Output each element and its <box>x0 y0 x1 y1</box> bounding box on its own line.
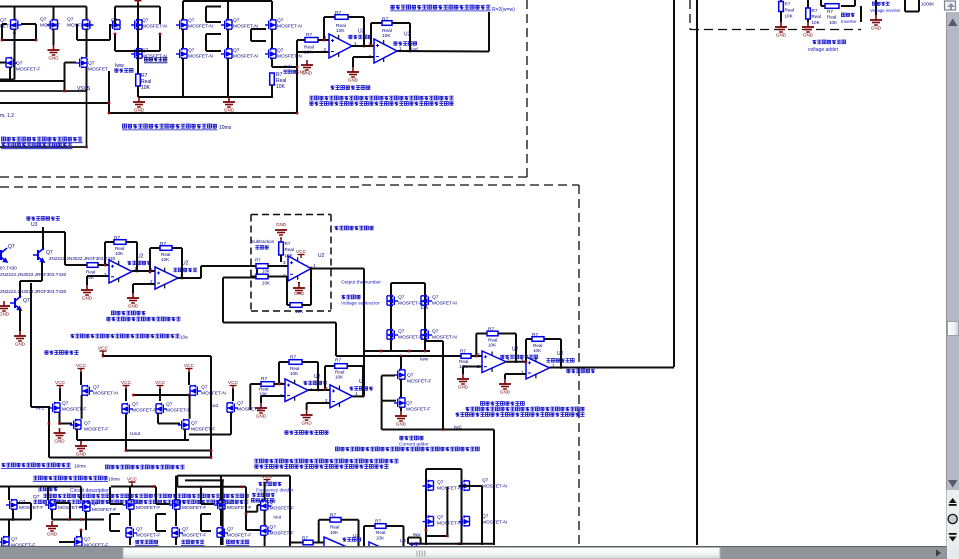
svg-text:Q7: Q7 <box>182 499 189 505</box>
svg-text:Q7: Q7 <box>136 527 143 533</box>
svg-text:MOSFET-F: MOSFET-F <box>84 427 108 433</box>
svg-text:Q7: Q7 <box>84 421 91 427</box>
svg-text:Q7: Q7 <box>182 527 189 533</box>
svg-text:Real: Real <box>86 270 95 275</box>
svg-text:R7: R7 <box>114 235 120 241</box>
svg-text:Real: Real <box>285 247 294 252</box>
svg-text:Iww: Iww <box>420 357 429 362</box>
svg-text:3: 3 <box>280 381 283 386</box>
svg-text:Q7: Q7 <box>16 61 23 67</box>
svg-text:10K: 10K <box>812 20 821 25</box>
svg-text:R7: R7 <box>460 349 466 354</box>
svg-text:MOSFET-N: MOSFET-N <box>142 24 167 30</box>
svg-text:MOSFET-N: MOSFET-N <box>233 54 258 60</box>
svg-text:Current adder: Current adder <box>399 442 429 448</box>
svg-text:R7: R7 <box>532 332 538 338</box>
svg-text:Q7: Q7 <box>62 401 69 407</box>
svg-text:Q7: Q7 <box>437 480 444 486</box>
svg-text:3: 3 <box>283 260 286 265</box>
svg-text:10K: 10K <box>336 28 345 34</box>
svg-text:Q7: Q7 <box>0 18 7 24</box>
svg-text:Iout: Iout <box>273 515 281 520</box>
svg-text:R7: R7 <box>330 513 336 519</box>
svg-text:Q7: Q7 <box>33 494 40 500</box>
svg-text:R7: R7 <box>827 9 833 14</box>
svg-text:Q7: Q7 <box>166 402 173 408</box>
svg-text:Q7: Q7 <box>93 385 100 391</box>
svg-text:10ms: 10ms <box>219 125 232 131</box>
svg-text:Q7: Q7 <box>67 17 74 23</box>
svg-text:Q7: Q7 <box>8 244 15 250</box>
svg-text:Iww: Iww <box>413 532 422 537</box>
svg-text:10K: 10K <box>488 343 497 348</box>
svg-text:MOSFET-N: MOSFET-N <box>201 391 226 397</box>
svg-text:Q7: Q7 <box>270 525 277 531</box>
svg-text:MOSFET-N: MOSFET-N <box>432 335 457 341</box>
svg-text:Q7: Q7 <box>233 18 240 24</box>
svg-text:Q7: Q7 <box>277 18 284 24</box>
svg-text:R7: R7 <box>302 536 308 541</box>
svg-text:GND: GND <box>803 32 814 37</box>
svg-text:R7: R7 <box>382 17 388 23</box>
svg-text:R7: R7 <box>375 519 381 525</box>
svg-text:Q7: Q7 <box>233 48 240 54</box>
svg-text:R7: R7 <box>255 258 261 263</box>
svg-text:Q7: Q7 <box>227 499 234 505</box>
svg-text:MOSFET-F: MOSFET-F <box>182 533 206 539</box>
svg-text:GND: GND <box>256 413 267 418</box>
svg-text:GND: GND <box>396 421 407 426</box>
svg-text:Q7: Q7 <box>398 329 405 335</box>
svg-text:MOSFET-N: MOSFET-N <box>398 335 423 341</box>
svg-text:Q7: Q7 <box>132 402 139 408</box>
svg-text:MOSFET-F: MOSFET-F <box>191 427 215 433</box>
svg-text:GND: GND <box>294 291 304 296</box>
svg-text:GND: GND <box>276 222 287 227</box>
svg-text:MOSFET-F: MOSFET-F <box>166 408 190 414</box>
svg-text:Q7: Q7 <box>407 373 414 379</box>
svg-text:GND: GND <box>302 70 313 75</box>
svg-text:10ms: 10ms <box>108 477 120 483</box>
svg-text:Q7: Q7 <box>398 295 405 301</box>
svg-text:10K: 10K <box>115 251 124 256</box>
svg-text:10K: 10K <box>376 536 385 541</box>
svg-text:Q7: Q7 <box>437 515 444 521</box>
svg-text:Real: Real <box>330 525 339 530</box>
svg-text:Iww: Iww <box>115 63 124 69</box>
svg-text:10K: 10K <box>382 33 391 39</box>
svg-text:GND: GND <box>76 451 87 456</box>
svg-text:2: 2 <box>283 273 286 278</box>
svg-text:1uw: 1uw <box>420 305 429 310</box>
svg-text:R7: R7 <box>285 241 291 246</box>
svg-text:MOSFET-F: MOSFET-F <box>406 407 430 413</box>
svg-text:2N2222.2N3022.JRGF303.T430: 2N2222.2N3022.JRGF303.T430 <box>0 272 67 277</box>
svg-text:R7: R7 <box>785 2 791 7</box>
svg-text:MOSFET-F: MOSFET-F <box>270 506 294 512</box>
svg-text:Iw.1: Iw.1 <box>36 406 45 411</box>
svg-text:GND: GND <box>224 107 235 112</box>
svg-text:MOSFET-N: MOSFET-N <box>188 24 213 30</box>
svg-text:GND: GND <box>301 420 312 425</box>
svg-text:MOSFET-N: MOSFET-N <box>432 301 457 307</box>
svg-text:2: 2 <box>104 272 107 277</box>
svg-text:m, 1.2: m, 1.2 <box>0 113 14 119</box>
svg-text:GND: GND <box>871 25 882 30</box>
svg-text:10K: 10K <box>829 20 838 25</box>
svg-text:Real: Real <box>812 14 821 19</box>
svg-text:10K: 10K <box>262 281 270 286</box>
svg-text:GND: GND <box>48 55 59 60</box>
svg-text:MOSFET-F: MOSFET-F <box>227 505 251 511</box>
svg-text:Frequency divider: Frequency divider <box>256 488 294 493</box>
svg-text:MOSFET-F: MOSFET-F <box>227 533 251 539</box>
svg-text:GND: GND <box>54 438 65 443</box>
svg-text:GND: GND <box>134 107 145 112</box>
svg-text:MOSFET-N: MOSFET-N <box>482 520 507 526</box>
svg-text:GND: GND <box>15 341 26 346</box>
svg-text:1: 1 <box>313 263 316 268</box>
svg-text:MOSFET-F: MOSFET-F <box>237 407 261 413</box>
svg-text:10K: 10K <box>161 257 170 262</box>
svg-text:10K: 10K <box>276 84 286 90</box>
svg-text:Q7: Q7 <box>406 401 413 407</box>
svg-text:R7: R7 <box>290 355 296 361</box>
svg-text:10K: 10K <box>262 269 270 274</box>
svg-text:GND: GND <box>348 77 359 82</box>
svg-text:Q7: Q7 <box>237 401 244 407</box>
svg-text:Q7: Q7 <box>482 514 489 520</box>
svg-text:MOSFET-N: MOSFET-N <box>188 54 213 60</box>
svg-text:MOSFET-F: MOSFET-F <box>270 531 294 537</box>
svg-text:10K: 10K <box>785 14 794 19</box>
svg-text:Q7: Q7 <box>11 537 18 543</box>
svg-text:GND: GND <box>47 531 58 536</box>
svg-text:R7: R7 <box>261 376 267 382</box>
svg-text:1: 1 <box>355 391 358 396</box>
svg-text:10K: 10K <box>335 375 344 380</box>
svg-text:GND: GND <box>128 303 139 308</box>
svg-text:GND: GND <box>82 295 93 300</box>
svg-text:Q7: Q7 <box>432 295 439 301</box>
svg-text:Q7: Q7 <box>88 61 95 67</box>
svg-text:Q7: Q7 <box>201 385 208 391</box>
svg-text:Real: Real <box>376 530 385 535</box>
svg-text:MOSFET-N: MOSFET-N <box>67 23 92 29</box>
svg-text:MOSFET: MOSFET <box>40 23 60 29</box>
svg-text:Q7: Q7 <box>270 500 277 506</box>
svg-text:GND: GND <box>0 311 10 316</box>
svg-text:R7: R7 <box>488 327 494 333</box>
svg-text:10K: 10K <box>330 530 339 535</box>
svg-text:U3: U3 <box>31 222 38 228</box>
svg-text:1ud: 1ud <box>410 47 418 52</box>
svg-text:Circuit description: Circuit description <box>70 488 110 494</box>
svg-text:Q7: Q7 <box>23 298 30 304</box>
svg-text:2: 2 <box>477 364 480 369</box>
svg-text:1w2: 1w2 <box>210 403 219 408</box>
svg-text:Q7: Q7 <box>432 329 439 335</box>
svg-text:2: 2 <box>324 47 327 52</box>
svg-text:10a: 10a <box>180 335 188 340</box>
svg-text:MOSFET-F: MOSFET-F <box>62 407 86 413</box>
svg-text:Q7: Q7 <box>191 421 198 427</box>
svg-text:2N2222.2N3022.JRGF303.T430: 2N2222.2N3022.JRGF303.T430 <box>0 289 67 294</box>
svg-text:Subtraction: Subtraction <box>251 239 275 244</box>
svg-text:Q7: Q7 <box>40 17 47 23</box>
svg-text:MOSFET-F: MOSFET-F <box>132 408 156 414</box>
svg-text:Voltage subtractor: Voltage subtractor <box>341 301 380 307</box>
svg-text:U2: U2 <box>318 253 325 259</box>
svg-text:Voltage inverter: Voltage inverter <box>870 8 901 13</box>
svg-text:10K: 10K <box>290 371 299 376</box>
svg-text:10K: 10K <box>141 85 151 91</box>
svg-text:MOSFET-N: MOSFET-N <box>277 24 302 30</box>
svg-text:Q7: Q7 <box>142 18 149 24</box>
svg-text:MOSFET-N: MOSFET-N <box>277 54 302 60</box>
svg-text:8?,T430: 8?,T430 <box>0 266 17 271</box>
svg-text:Q7: Q7 <box>277 48 284 54</box>
svg-text:MOSFET-F: MOSFET-F <box>92 507 116 513</box>
svg-text:Inverter: Inverter <box>841 19 857 24</box>
svg-text:Q7: Q7 <box>188 48 195 54</box>
svg-text:10ms: 10ms <box>74 464 86 470</box>
svg-text:GND: GND <box>500 389 511 394</box>
svg-text:Q7: Q7 <box>227 527 234 533</box>
svg-text:GND: GND <box>458 384 469 389</box>
svg-text:Real: Real <box>785 8 794 13</box>
svg-text:voltage adder: voltage adder <box>808 47 839 53</box>
svg-text:R7: R7 <box>335 10 341 16</box>
svg-text:R7: R7 <box>160 241 166 247</box>
svg-text:MOSFET-F: MOSFET-F <box>182 505 206 511</box>
svg-text:Q7: Q7 <box>92 501 99 507</box>
svg-text:Q7: Q7 <box>188 18 195 24</box>
svg-text:MOSFET: MOSFET <box>88 67 108 73</box>
svg-text:Q7: Q7 <box>84 537 91 543</box>
svg-text:Uout: Uout <box>130 431 141 437</box>
svg-text:MOSFET-F: MOSFET-F <box>136 505 160 511</box>
svg-text:IwC: IwC <box>454 425 463 430</box>
svg-text:R7: R7 <box>335 358 341 364</box>
svg-text:R7: R7 <box>812 8 818 13</box>
svg-text:10K: 10K <box>295 309 304 314</box>
svg-text:MOSFET-F: MOSFET-F <box>407 379 431 385</box>
svg-text:MOSFET-F: MOSFET-F <box>136 533 160 539</box>
svg-text:MOSFET-N: MOSFET-N <box>482 484 507 490</box>
svg-text:Output the number: Output the number <box>341 280 381 286</box>
svg-text:3: 3 <box>521 358 524 363</box>
svg-text:U2: U2 <box>400 538 406 544</box>
svg-text:2: 2 <box>280 393 283 398</box>
svg-text:Q7: Q7 <box>136 499 143 505</box>
svg-text:MO: MO <box>111 24 119 30</box>
svg-text:MOSFET-N: MOSFET-N <box>93 391 118 397</box>
svg-text:1000K: 1000K <box>921 2 935 7</box>
svg-text:GND: GND <box>776 32 787 37</box>
svg-text:Real: Real <box>827 15 836 20</box>
svg-text:1uk: 1uk <box>284 64 292 70</box>
svg-text:R=2(w=w): R=2(w=w) <box>492 7 515 13</box>
svg-text:R7: R7 <box>306 32 312 38</box>
svg-text:10K: 10K <box>533 348 542 353</box>
svg-text:Q7: Q7 <box>482 478 489 484</box>
svg-text:MOSFET-F: MOSFET-F <box>16 67 40 73</box>
